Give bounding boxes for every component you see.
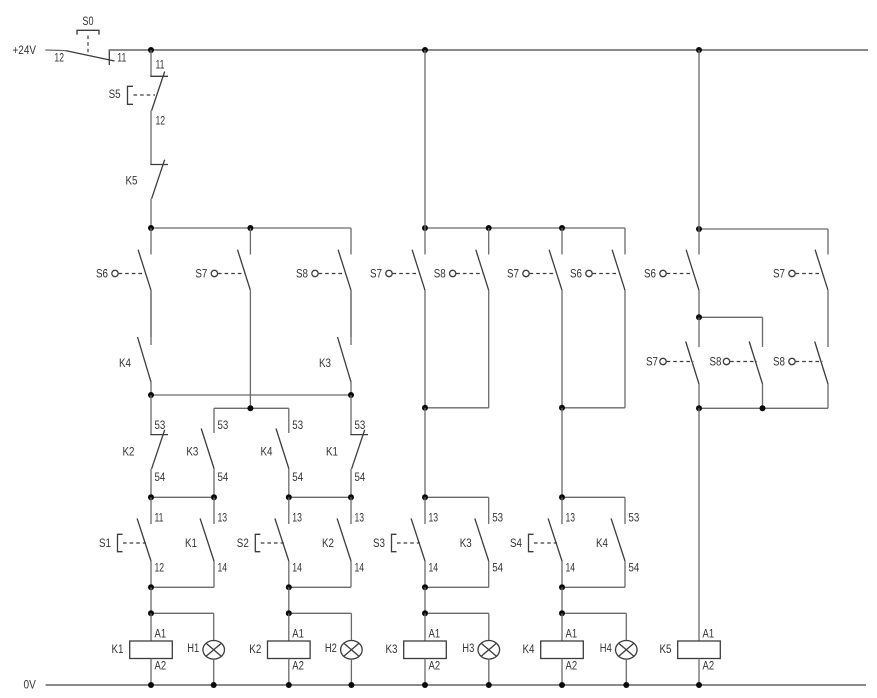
svg-text:54: 54 — [492, 563, 503, 575]
pin A2 of K5 — [703, 661, 715, 673]
svg-text:K4: K4 — [119, 358, 132, 370]
svg-text:S3: S3 — [373, 538, 385, 550]
svg-text:K3: K3 — [319, 358, 331, 370]
junction y613 col562 — [559, 610, 565, 616]
svg-text:K5: K5 — [660, 644, 672, 656]
svg-text:K3: K3 — [386, 644, 398, 656]
junction y395 col351 — [348, 392, 354, 398]
label H1 — [187, 643, 199, 655]
wire rung y497 group4 — [562, 496, 625, 498]
net +24V label — [13, 45, 37, 57]
junction y497 col562 — [559, 494, 565, 500]
label S3 — [373, 538, 385, 550]
svg-text:S2: S2 — [237, 538, 249, 550]
relay coil K4 — [541, 641, 584, 659]
wire K4 coil feed — [561, 613, 563, 641]
pin 12 S1 — [155, 563, 165, 575]
svg-text:H2: H2 — [325, 643, 337, 655]
wire rung y613 group2 — [289, 612, 352, 614]
pin A1 of K1 — [155, 629, 167, 641]
pin 53 K3b — [492, 513, 503, 525]
label K1 col214 — [185, 538, 197, 550]
label K2 coil — [249, 644, 261, 656]
junction 0V lamp H2 — [348, 682, 354, 688]
svg-text:54: 54 — [629, 563, 640, 575]
pushbutton S6 (NO) col699 — [660, 229, 699, 317]
svg-text:0V: 0V — [24, 680, 37, 692]
junction y408 col425 — [422, 405, 428, 411]
wire col425 y587-y613 — [424, 587, 426, 613]
junction group1 rail col151 — [148, 225, 154, 231]
junction 0V col562 — [559, 682, 565, 688]
label K3 col214 — [186, 447, 198, 459]
label K4 col151 — [119, 358, 132, 370]
net 0V label — [24, 680, 37, 692]
label K4 col625 — [596, 538, 609, 550]
pin 53 K4b — [629, 513, 640, 525]
pushbutton S3 (NO) col425 — [392, 497, 426, 587]
pin 14 S2 — [292, 563, 302, 575]
label K5 — [126, 176, 138, 188]
relay coil K5 — [678, 641, 721, 659]
svg-text:K2: K2 — [123, 447, 135, 459]
pin 13 K2 — [355, 513, 365, 525]
label H4 — [600, 643, 612, 655]
wire rung y613 group1 — [151, 612, 214, 614]
wire lamp H1 drop — [213, 613, 215, 640]
svg-text:H1: H1 — [187, 643, 199, 655]
pushbutton S6 (NO) col625 — [586, 228, 625, 408]
pushbutton S2 (NO) col288 — [255, 497, 288, 587]
label S8 col488 — [434, 269, 446, 281]
svg-text:K1: K1 — [185, 538, 197, 550]
label K3 coil — [386, 644, 398, 656]
svg-text:12: 12 — [155, 563, 165, 575]
contact K2 13-14 col351 — [337, 497, 351, 587]
wire feed col 425 from +24V rail — [424, 50, 426, 228]
wire K2 coil to 0V — [288, 659, 290, 686]
svg-text:S5: S5 — [109, 89, 121, 101]
svg-text:K5: K5 — [126, 176, 138, 188]
svg-text:A2: A2 — [566, 661, 578, 673]
wire col288 y587-y613 — [288, 587, 290, 613]
wire col562 y587-y613 — [561, 587, 563, 613]
wire col151 y587-y613 — [150, 587, 152, 613]
wire group2 bottom tie y408 — [425, 407, 489, 409]
relay coil K2 — [268, 641, 311, 659]
junction on +24V rail at col 151 — [148, 47, 154, 53]
contact K4 53-54 col625 — [611, 497, 625, 587]
svg-text:K3: K3 — [460, 538, 472, 550]
label S7 col828 — [773, 269, 785, 281]
contact K4 (NO) col151 — [138, 290, 152, 395]
pin A1 of K5 — [703, 629, 715, 641]
svg-text:A1: A1 — [429, 629, 441, 641]
junction y497 col288 — [286, 494, 292, 500]
pushbutton S8 (NO) col762 lower — [723, 317, 762, 408]
lamp H4 — [616, 641, 638, 660]
wire K3 coil to 0V — [424, 659, 426, 686]
wire col699 y408-coil — [698, 408, 700, 641]
label K3 col351 — [319, 358, 331, 370]
label S4 — [510, 538, 523, 550]
svg-text:A1: A1 — [292, 629, 304, 641]
svg-text:K3: K3 — [186, 447, 198, 459]
svg-text:13: 13 — [566, 513, 576, 525]
pin A2 of K2 — [292, 661, 304, 673]
svg-text:S7: S7 — [507, 269, 519, 281]
junction y408 col762 — [760, 405, 766, 411]
wire top +24V rail — [109, 49, 868, 51]
svg-text:13: 13 — [292, 513, 302, 525]
svg-text:53: 53 — [218, 420, 229, 432]
wire rung y613 group3 — [425, 612, 489, 614]
wire group3 bottom tie y408 — [562, 407, 625, 409]
wire feed col 699 from +24V rail — [698, 50, 700, 229]
svg-text:S7: S7 — [195, 269, 207, 281]
wire rung y497 group1a — [151, 496, 214, 498]
pin 53 K2 — [155, 420, 166, 432]
pin A1 of K3 — [429, 629, 441, 641]
svg-text:S6: S6 — [570, 269, 582, 281]
wire rung y613 group4 — [562, 612, 626, 614]
contact K1 53-54 (col351) — [350, 395, 368, 497]
wire K1 coil to 0V — [150, 659, 152, 686]
wire group4 bottom tie y408 — [699, 407, 828, 409]
label K4 coil — [523, 644, 536, 656]
svg-text:54: 54 — [218, 472, 229, 484]
label S7 col425 — [370, 269, 382, 281]
wire rung y587 group2 — [289, 586, 351, 588]
wire H1 to 0V — [213, 659, 215, 685]
label S7 col250 — [195, 269, 207, 281]
relay coil K1 — [130, 641, 173, 659]
svg-text:12: 12 — [156, 116, 166, 128]
svg-text:13: 13 — [355, 513, 365, 525]
wire col425 y408-y497 — [424, 408, 426, 498]
lamp H2 — [341, 641, 363, 660]
junction y613 col288 — [286, 610, 292, 616]
svg-text:S7: S7 — [773, 269, 785, 281]
label S6 col699 — [644, 269, 656, 281]
label S8 col351 — [296, 269, 308, 281]
svg-text:A2: A2 — [155, 661, 167, 673]
svg-text:K2: K2 — [322, 538, 334, 550]
junction y497 col351 — [348, 494, 354, 500]
svg-text:14: 14 — [429, 563, 439, 575]
pushbutton S1 (NO) col151 — [118, 497, 152, 587]
junction y587 col151 — [148, 584, 154, 590]
wire lamp H3 drop — [488, 613, 490, 640]
junction group1 rail col250 — [247, 225, 253, 231]
wire group-2/3 top rail — [425, 227, 625, 229]
wire K1 coil feed — [150, 613, 152, 641]
junction group23 rail col488 — [486, 225, 492, 231]
svg-text:A2: A2 — [703, 661, 715, 673]
pin 12 of S5 — [156, 116, 166, 128]
pin 54 K2 — [155, 472, 166, 484]
svg-text:13: 13 — [429, 513, 439, 525]
pin 12 of S0 — [54, 52, 64, 64]
svg-text:K2: K2 — [249, 644, 261, 656]
svg-text:12: 12 — [54, 52, 64, 64]
wire rung y497 group3 — [425, 496, 489, 498]
wire rung y587 group4 — [562, 586, 625, 588]
svg-text:53: 53 — [629, 513, 640, 525]
label S2 — [237, 538, 249, 550]
pin A1 of K2 — [292, 629, 304, 641]
junction on +24V rail at col 699 — [696, 47, 702, 53]
junction y587 col562 — [559, 584, 565, 590]
junction y587 col425 — [422, 584, 428, 590]
junction 0V col288 — [286, 682, 292, 688]
svg-text:14: 14 — [566, 563, 576, 575]
svg-text:K4: K4 — [261, 447, 274, 459]
pin 53 K1 — [355, 420, 366, 432]
wire rung y497 group1b — [289, 496, 351, 498]
wire rung y587 group3 — [425, 586, 489, 588]
label H2 — [325, 643, 337, 655]
junction group4 rail col699 — [696, 226, 702, 232]
label S7 col562 — [507, 269, 519, 281]
pin 14 K2 — [355, 563, 365, 575]
pin 13 S4 — [566, 513, 576, 525]
contact K3 53-54 (col214) — [201, 408, 214, 497]
label S6 col625 — [570, 269, 582, 281]
wire K4 coil to 0V — [561, 659, 563, 686]
wire col562 y408-y497 — [561, 408, 563, 498]
wire +24V lead into S0 — [45, 49, 65, 52]
svg-text:S8: S8 — [434, 269, 446, 281]
label H3 — [462, 643, 474, 655]
pin A1 of K4 — [566, 629, 578, 641]
wire lamp H4 drop — [625, 613, 627, 640]
junction y395 col151 — [148, 392, 154, 398]
junction group4 mid col699 — [696, 314, 702, 320]
pin A2 of K3 — [429, 661, 441, 673]
pin 11 S1 — [155, 513, 164, 525]
svg-text:H4: H4 — [600, 643, 612, 655]
svg-text:11: 11 — [117, 52, 126, 64]
pushbutton S5 (NC) contact — [150, 50, 168, 165]
label K4 col288 — [261, 447, 274, 459]
svg-text:14: 14 — [355, 563, 365, 575]
pushbutton S7 (NO) col425 — [386, 228, 425, 408]
contact K4 53-54 (col288) — [276, 408, 289, 497]
svg-text:A1: A1 — [703, 629, 715, 641]
svg-text:A2: A2 — [429, 661, 441, 673]
label S6 — [96, 269, 108, 281]
pin 13 K1 — [218, 513, 228, 525]
pushbutton S8 (NO) col488 — [450, 228, 489, 408]
svg-text:+24V: +24V — [13, 45, 37, 57]
pin 14 S4 — [566, 563, 576, 575]
wire H4 to 0V — [625, 659, 627, 685]
svg-text:S4: S4 — [510, 538, 523, 550]
svg-text:11: 11 — [155, 513, 164, 525]
junction 0V lamp H1 — [211, 682, 217, 688]
wire bottom 0V rail — [46, 684, 866, 686]
svg-text:S6: S6 — [96, 269, 108, 281]
pin 11 of S0 — [117, 52, 126, 64]
junction y408 col250 — [247, 405, 253, 411]
pushbutton S7 (NO) col562 — [523, 228, 562, 408]
svg-text:S1: S1 — [99, 538, 111, 550]
svg-text:S7: S7 — [646, 357, 658, 369]
wire group4 mid tie — [699, 316, 763, 318]
label S7 col699 lower — [646, 357, 658, 369]
pin 13 S3 — [429, 513, 439, 525]
pushbutton S8 (NO) col828 lower — [789, 342, 828, 409]
junction y587 col288 — [286, 584, 292, 590]
label S0 — [82, 16, 93, 28]
svg-text:S8: S8 — [710, 357, 722, 369]
contact K3 53-54 col488 — [475, 497, 489, 587]
svg-text:H3: H3 — [462, 643, 474, 655]
wire K5 coil to 0V — [698, 659, 700, 686]
actuator of S5 — [128, 86, 156, 104]
pin 54 K3b — [492, 563, 503, 575]
pin A2 of K4 — [566, 661, 578, 673]
wire lamp H2 drop — [350, 613, 352, 640]
wire H2 to 0V — [350, 659, 352, 685]
pin 14 S3 — [429, 563, 439, 575]
pin A2 of K1 — [155, 661, 167, 673]
junction 0V col699 — [696, 682, 702, 688]
svg-text:54: 54 — [155, 472, 166, 484]
pushbutton S8 (NO) col351 — [312, 228, 351, 337]
wire H3 to 0V — [488, 659, 490, 685]
label S5 — [109, 89, 121, 101]
junction y408 col699 — [696, 405, 702, 411]
label S8 col828 lower — [773, 357, 785, 369]
svg-text:A1: A1 — [566, 629, 578, 641]
svg-text:K1: K1 — [326, 447, 338, 459]
svg-text:K1: K1 — [112, 644, 124, 656]
svg-text:A2: A2 — [292, 661, 304, 673]
junction y408 col562 — [559, 405, 565, 411]
junction 0V lamp H3 — [486, 682, 492, 688]
wire K3 coil feed — [424, 613, 426, 641]
svg-text:54: 54 — [355, 472, 366, 484]
junction group23 rail col425 — [422, 225, 428, 231]
junction y497 col425 — [422, 494, 428, 500]
contact K5 (NC) — [150, 160, 168, 228]
pin 14 K1 — [218, 563, 228, 575]
pin 13 S2 — [292, 513, 302, 525]
label K1 col351 — [326, 447, 338, 459]
label S1 — [99, 538, 111, 550]
svg-text:S7: S7 — [370, 269, 382, 281]
junction y613 col151 — [148, 610, 154, 616]
svg-text:53: 53 — [492, 513, 503, 525]
junction 0V col425 — [422, 682, 428, 688]
wire group1 node rail y395 — [151, 394, 351, 396]
junction y497 col214 — [211, 494, 217, 500]
svg-text:53: 53 — [292, 420, 303, 432]
pin 54 K4b — [629, 563, 640, 575]
wire group-1 top rail — [151, 227, 351, 229]
junction y497 col151 — [148, 494, 154, 500]
junction y613 col425 — [422, 610, 428, 616]
pushbutton S0 (maintained, NC) with actuator — [66, 30, 115, 65]
svg-text:54: 54 — [292, 472, 303, 484]
contact K1 13-14 col214 — [200, 497, 214, 587]
svg-text:14: 14 — [292, 563, 302, 575]
svg-text:S8: S8 — [296, 269, 308, 281]
pushbutton S4 (NO) col562 — [529, 497, 563, 587]
pin 53 K4 — [292, 420, 303, 432]
svg-text:53: 53 — [155, 420, 166, 432]
junction group23 rail col562 — [559, 225, 565, 231]
label K2 col351 — [322, 538, 334, 550]
svg-text:53: 53 — [355, 420, 366, 432]
label K5 coil — [660, 644, 672, 656]
svg-text:S0: S0 — [82, 16, 93, 28]
pin 54 K3 — [218, 472, 229, 484]
svg-text:14: 14 — [218, 563, 228, 575]
contact K3 (NO) col351 — [338, 290, 352, 395]
svg-text:K4: K4 — [523, 644, 536, 656]
pushbutton S7 (NO) col250 — [211, 228, 250, 408]
wire group-4 top rail — [699, 228, 828, 230]
label K3 col488 — [460, 538, 472, 550]
pin 53 K3 — [218, 420, 229, 432]
junction on +24V rail at col 425 — [422, 47, 428, 53]
pushbutton S6 (NO) — [112, 228, 151, 337]
wire rung y587 group1 — [151, 586, 214, 588]
junction 0V col151 — [148, 682, 154, 688]
wire group1 bracket y408 — [214, 407, 289, 409]
label K1 coil — [112, 644, 124, 656]
contact K2 53-54 (col151) — [150, 395, 168, 497]
svg-text:13: 13 — [218, 513, 228, 525]
pin 54 K4 — [292, 472, 303, 484]
svg-text:S6: S6 — [644, 269, 656, 281]
wire K2 coil feed — [288, 613, 290, 641]
pin 11 of S5 — [156, 60, 165, 72]
lamp H3 — [478, 641, 500, 660]
pushbutton S7 (NO) col828 — [789, 229, 828, 342]
label S8 col762 lower — [710, 357, 722, 369]
relay coil K3 — [404, 641, 447, 659]
junction 0V lamp H4 — [623, 682, 629, 688]
pin 54 K1 — [355, 472, 366, 484]
svg-text:A1: A1 — [155, 629, 167, 641]
label K2 col151 — [123, 447, 135, 459]
svg-text:K4: K4 — [596, 538, 609, 550]
lamp H1 — [203, 641, 225, 660]
pushbutton S7 (NO) col699 lower — [660, 317, 699, 408]
svg-text:11: 11 — [156, 60, 165, 72]
svg-text:S8: S8 — [773, 357, 785, 369]
